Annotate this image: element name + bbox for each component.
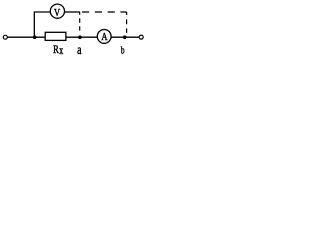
svg-text:x: x xyxy=(59,45,63,58)
svg-text:a: a xyxy=(77,41,82,57)
svg-text:A: A xyxy=(101,31,107,43)
svg-text:V: V xyxy=(54,7,60,19)
svg-text:R: R xyxy=(53,44,59,57)
svg-text:b: b xyxy=(121,45,125,57)
